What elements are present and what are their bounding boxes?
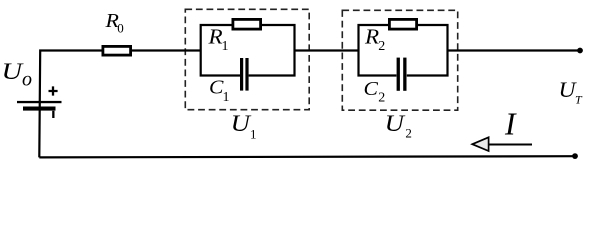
svg-text:I: I xyxy=(504,106,517,141)
svg-text:R: R xyxy=(364,24,379,48)
svg-text:1: 1 xyxy=(223,90,230,105)
svg-text:1: 1 xyxy=(250,126,257,141)
svg-text:2: 2 xyxy=(405,125,412,140)
svg-text:2: 2 xyxy=(378,39,385,54)
svg-text:0: 0 xyxy=(117,21,124,36)
svg-text:C: C xyxy=(364,78,379,100)
svg-text:o: o xyxy=(22,69,32,91)
svg-text:1: 1 xyxy=(222,39,229,54)
svg-text:U: U xyxy=(231,111,252,136)
svg-text:R: R xyxy=(207,24,222,48)
svg-text:2: 2 xyxy=(378,91,385,106)
svg-text:U: U xyxy=(385,111,406,136)
svg-text:U: U xyxy=(2,59,24,84)
